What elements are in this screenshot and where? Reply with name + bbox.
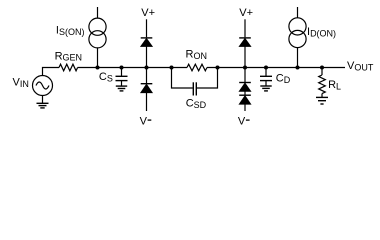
resistor RON [187,64,207,71]
node left clamp [145,66,149,70]
diode D1 to V+ (left clamp) [146,19,148,37]
current source ID(ON) [297,7,299,18]
ground CS [116,86,127,91]
wire parallel loop right [197,68,218,89]
svg-text:V+: V+ [141,7,155,19]
svg-text:VIN: VIN [13,77,29,90]
svg-text:V: V [140,115,148,127]
source VIN [33,76,53,96]
wire main right [207,67,345,69]
svg-text:CD: CD [276,73,291,86]
svg-text:IS(ON): IS(ON) [56,25,85,38]
wire parallel loop left [172,68,193,89]
diode D5 to V- (right clamp, second) [239,94,251,96]
svg-text:RGEN: RGEN [55,51,82,63]
resistor RL [321,68,323,76]
ground CD [260,86,271,91]
diode D4 to V- (right clamp, first) [244,68,246,83]
svg-text:CSD: CSD [186,98,207,111]
diode D3 to V+ (right clamp) [244,19,246,37]
node RON left [170,66,174,70]
wire main middle [78,67,187,69]
node IS [96,66,100,70]
svg-text:RL: RL [328,79,341,92]
node ID [296,66,300,70]
diode D2 to V- (left clamp) [146,68,148,84]
svg-text:RON: RON [186,49,207,62]
node RL [320,66,324,70]
capacitor CS [121,68,123,77]
ground VIN [37,103,49,108]
svg-text:VOUT: VOUT [347,60,374,73]
capacitor CD [265,68,267,77]
current source IS(ON) [97,7,99,18]
node right clamp [243,66,247,70]
svg-text:ID(ON): ID(ON) [307,26,336,39]
svg-text:CS: CS [99,71,113,84]
node CD [264,66,268,70]
wire main horizontal left [43,68,60,76]
ground RL [316,97,328,104]
junction dots [96,66,325,70]
svg-text:V+: V+ [239,7,253,19]
node CS [120,66,124,70]
capacitor CSD [193,82,196,95]
node RON right [216,66,220,70]
svg-text:V: V [238,115,246,127]
resistor RGEN [59,64,78,71]
